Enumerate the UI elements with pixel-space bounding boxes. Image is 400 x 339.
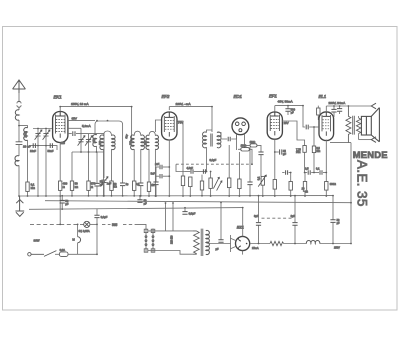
wire heater dashed	[30, 223, 60, 225]
wire osc row	[68, 133, 72, 135]
wire	[80, 134, 82, 152]
svg-text:220 110: 220 110	[171, 235, 174, 244]
capacitor top b	[339, 106, 341, 109]
wire dashed link	[262, 217, 293, 219]
wire	[45, 129, 47, 197]
wire	[111, 190, 113, 195]
wire	[96, 218, 98, 255]
wire	[309, 126, 318, 128]
trimmer capacitor osc 2	[85, 136, 92, 146]
wire bus 2	[45, 201, 351, 203]
svg-text:33W: 33W	[34, 239, 40, 243]
connector mains plug	[28, 253, 31, 256]
capacitor electrolytic det	[247, 182, 252, 185]
svg-text:600: 600	[145, 140, 148, 145]
svg-text:50nF: 50nF	[48, 149, 54, 153]
potentiometer volume	[209, 178, 212, 188]
wire lamp drop	[77, 224, 79, 236]
trimmer capacitor osc 1	[78, 136, 85, 146]
wire	[238, 189, 240, 196]
svg-text:EK1: EK1	[54, 95, 63, 100]
wire	[242, 251, 244, 255]
wire cathode EF1	[274, 139, 276, 179]
wire	[90, 223, 97, 225]
trimmer capacitor padder	[101, 177, 108, 187]
wire screen EF1	[282, 121, 305, 146]
wire	[290, 190, 292, 196]
tube EK1	[53, 112, 68, 143]
wire	[77, 243, 79, 255]
capacitor 50uF bus	[139, 196, 141, 200]
svg-text:µF: µF	[144, 201, 147, 205]
transformer mains primary zigzag	[193, 231, 199, 254]
wire	[103, 152, 105, 178]
svg-text:6V, 0,35A: 6V, 0,35A	[79, 229, 90, 233]
wire selector feed	[136, 224, 146, 229]
wire	[131, 107, 133, 141]
coil IF4a	[203, 132, 207, 148]
capacitor series 2	[50, 143, 52, 148]
wire	[68, 253, 97, 255]
wire	[238, 149, 252, 164]
wire	[27, 191, 29, 196]
resistor	[189, 177, 192, 187]
capacitor coupling EL1	[306, 125, 308, 130]
tube EF2	[162, 112, 177, 140]
capacitor grid EF1	[258, 152, 263, 155]
wire detector grid	[217, 133, 227, 140]
wire	[228, 145, 230, 178]
capacitor detector	[228, 137, 230, 141]
capacitor 35uF cathode EF1	[275, 151, 279, 153]
capacitor	[153, 182, 158, 185]
coil IF1b	[112, 135, 116, 150]
svg-text:µF: µF	[337, 222, 340, 225]
capacitor series 1	[33, 143, 35, 148]
svg-text:200: 200	[23, 132, 27, 137]
wire	[359, 139, 372, 141]
wire	[155, 167, 157, 182]
wire	[304, 173, 306, 196]
antenna	[13, 80, 26, 93]
svg-text:230V, 24mA: 230V, 24mA	[329, 101, 347, 105]
wire rounded routing	[95, 121, 123, 183]
wire	[103, 183, 105, 196]
svg-text:8µF: 8µF	[254, 214, 259, 218]
capacitor coupling b	[156, 175, 159, 177]
coil IF4b	[217, 132, 221, 148]
svg-text:EF2: EF2	[162, 94, 170, 99]
wire	[133, 190, 135, 195]
svg-text:Ω: Ω	[63, 185, 65, 189]
svg-text:10nF: 10nF	[30, 149, 36, 153]
connector plug antenna	[17, 101, 21, 107]
svg-text:40V, 36mA: 40V, 36mA	[278, 100, 294, 104]
capacitor 8uF a	[258, 196, 260, 244]
wire	[189, 187, 191, 196]
capacitor 50uF screen	[94, 183, 99, 186]
svg-text:0,8A: 0,8A	[60, 248, 66, 252]
ground	[15, 196, 24, 216]
svg-text:ED1: ED1	[234, 94, 243, 99]
svg-text:680Ω: 680Ω	[330, 183, 336, 186]
wire cathode EF2	[168, 140, 170, 196]
wire	[96, 134, 98, 152]
wire	[61, 203, 63, 209]
wire	[313, 153, 315, 173]
wire	[71, 152, 73, 181]
wire	[37, 129, 39, 197]
wire	[155, 185, 157, 196]
svg-text:0,2: 0,2	[257, 176, 260, 180]
selector column 1	[144, 229, 148, 253]
svg-text:4,5nF: 4,5nF	[187, 167, 194, 170]
wire	[111, 149, 113, 181]
wire rectifier plate fork	[231, 235, 237, 252]
capacitor 10nF antenna	[16, 142, 23, 145]
wire	[262, 185, 264, 196]
wire volume pot	[210, 172, 212, 179]
wire	[182, 186, 184, 196]
wire	[140, 186, 142, 196]
coil 200	[24, 128, 28, 141]
wire coupling EL1	[303, 106, 305, 127]
coil IF2b	[141, 135, 145, 150]
resistor anode top	[317, 108, 320, 115]
wire	[320, 243, 351, 245]
tube ED1	[232, 118, 249, 135]
capacitor 8uF b	[294, 196, 296, 244]
wire	[122, 186, 124, 196]
wire B+ riser	[350, 143, 352, 244]
wire bracket IF2	[134, 131, 141, 136]
wire 65V line	[68, 120, 95, 122]
capacitor	[282, 172, 284, 174]
wire 180V line	[169, 106, 212, 108]
resistor 1M grid EF1	[250, 144, 257, 147]
wire return line	[330, 142, 351, 144]
resistor	[238, 179, 241, 189]
wire antenna lead	[18, 93, 20, 110]
wire screen dropper	[96, 152, 98, 183]
wire	[325, 190, 327, 196]
capacitor 500pF anode	[287, 106, 289, 109]
resistor IF2 bottom	[133, 181, 136, 190]
wire	[88, 190, 90, 195]
wire cathode down	[59, 190, 61, 224]
resistor IF3 bottom	[147, 182, 150, 191]
wire	[211, 107, 213, 132]
wire 40V line	[275, 105, 303, 107]
svg-text:0,1: 0,1	[316, 168, 320, 171]
svg-text:EL1: EL1	[319, 94, 327, 99]
wire anode EK1	[59, 107, 61, 112]
potentiometer tone	[261, 176, 264, 185]
wire grid row	[33, 128, 53, 130]
resistor 0.1M	[26, 182, 29, 191]
svg-text:150V, 13 mA: 150V, 13 mA	[71, 102, 90, 106]
lamp dial	[84, 221, 90, 227]
wire AVC dashed	[176, 163, 252, 165]
wire	[140, 149, 142, 183]
resistor 400 cathode EK1	[59, 143, 61, 181]
connector arrow bottom	[371, 137, 376, 143]
wire 230V line	[326, 105, 371, 107]
wire ground bus 1	[19, 195, 333, 197]
wire	[237, 134, 245, 150]
svg-text:180V, ~mA: 180V, ~mA	[176, 102, 192, 106]
wire cathode EL1	[325, 140, 327, 182]
wire	[290, 173, 292, 182]
capacitor 0,1uF mains	[96, 209, 98, 215]
wire osc line	[68, 128, 81, 133]
speaker	[361, 108, 379, 142]
resistor dropper zigzag	[270, 241, 284, 245]
wire	[284, 243, 307, 245]
svg-text:250V: 250V	[334, 246, 340, 249]
resistor 20k	[303, 182, 306, 192]
capacitor IF2 bottom	[138, 183, 143, 186]
resistor 570	[87, 181, 90, 190]
wire	[249, 147, 251, 182]
wire screen EF2	[177, 121, 183, 176]
resistor cathode EL1	[325, 182, 328, 191]
resistor screen EF2	[181, 176, 184, 186]
coil IF3b	[155, 135, 158, 149]
wire HT to rectifier	[208, 243, 231, 245]
capacitor 0,1	[314, 172, 319, 174]
wire	[231, 134, 236, 139]
wire B+ bus 3	[29, 208, 243, 210]
wire tap	[165, 203, 167, 231]
wire	[154, 149, 156, 196]
svg-text:0,5: 0,5	[305, 168, 309, 171]
wire anode EF2	[168, 107, 170, 111]
coil output secondary zigzag	[356, 118, 360, 134]
wire	[304, 152, 306, 172]
transformer output core	[353, 116, 355, 135]
capacitor bus mid	[184, 208, 186, 212]
resistor 50k IF	[110, 181, 113, 190]
wire	[133, 149, 135, 181]
wire	[18, 165, 20, 196]
svg-text:65V: 65V	[72, 116, 77, 120]
transformer mains core	[201, 229, 203, 256]
wire primary bottom	[148, 251, 193, 255]
wire	[260, 155, 262, 177]
wire bracket IF1	[104, 131, 112, 136]
svg-text:A.E. 35: A.E. 35	[355, 160, 370, 207]
capacitor 50uF output	[330, 220, 335, 223]
wire	[18, 120, 20, 142]
wire osc bottom row	[72, 151, 104, 153]
wire 150V line	[60, 106, 131, 108]
wire rectifier output riser	[242, 208, 244, 237]
svg-text:8µF: 8µF	[291, 214, 296, 218]
svg-text:1nF: 1nF	[155, 163, 160, 166]
svg-text:5,3mA: 5,3mA	[82, 124, 91, 128]
connector arrow top	[371, 103, 376, 109]
svg-text:24Ω: 24Ω	[296, 151, 301, 154]
svg-text:MΩ: MΩ	[316, 150, 320, 153]
wire	[228, 188, 230, 196]
wire grid EF2	[155, 120, 161, 132]
svg-text:600: 600	[99, 140, 102, 145]
coil IF1a	[100, 135, 104, 150]
capacitor 50uF HT	[220, 203, 222, 240]
wire anode EL1	[325, 106, 327, 112]
svg-text:µF: µF	[65, 202, 68, 206]
svg-text:0,1µF: 0,1µF	[210, 158, 217, 162]
wire	[245, 145, 261, 152]
svg-text:MENDE: MENDE	[353, 149, 388, 160]
coil 600 osc	[93, 135, 97, 147]
coil field zigzag	[346, 106, 351, 143]
wire	[103, 149, 105, 196]
svg-text:kΩ: kΩ	[75, 185, 78, 189]
svg-text:210: 210	[61, 142, 66, 145]
wire	[210, 188, 212, 195]
wire	[18, 145, 20, 156]
resistor diode load	[200, 181, 203, 190]
transformer mains secondary	[206, 230, 210, 254]
selector column 2	[151, 229, 155, 253]
svg-text:27mA: 27mA	[252, 247, 259, 250]
trimmer capacitor tuning 2	[43, 130, 50, 140]
switch mains	[31, 251, 56, 257]
resistor 1M detector	[241, 148, 250, 151]
coil IF2a	[131, 135, 135, 150]
wire anode EF1	[274, 106, 276, 112]
resistor	[228, 178, 231, 188]
resistor screen EF1	[303, 146, 306, 153]
tube EF1	[267, 112, 282, 139]
svg-text:MΩ: MΩ	[31, 186, 35, 190]
wire	[55, 253, 59, 255]
resistor 50k	[70, 181, 73, 190]
wire	[148, 149, 150, 182]
svg-text:0,1µF: 0,1µF	[101, 215, 108, 219]
wire	[332, 222, 334, 243]
capacitor	[203, 169, 205, 173]
capacitor 50uF cathode	[61, 196, 63, 201]
wire	[148, 191, 150, 195]
wire	[88, 152, 90, 181]
wire bracket IF3	[149, 131, 155, 135]
wire	[250, 243, 270, 245]
svg-text:µF: µF	[283, 153, 286, 156]
wire	[207, 130, 213, 133]
capacitor 10nF bypass	[120, 183, 125, 186]
capacitor series osc	[73, 131, 75, 136]
wire	[71, 190, 73, 195]
fuse 0,8A	[59, 252, 68, 256]
resistor 0,8M grid EL1	[313, 127, 315, 146]
tube EZ1	[236, 236, 250, 250]
svg-text:EF1: EF1	[269, 94, 277, 99]
wire	[27, 140, 29, 182]
svg-text:600: 600	[92, 138, 96, 143]
junction dots	[18, 195, 20, 197]
svg-text:Ω: Ω	[91, 185, 93, 189]
resistor cathode EF1	[273, 180, 276, 190]
wire filter cap drop	[332, 196, 334, 220]
coil lamp loop	[78, 237, 81, 243]
core IF4	[211, 134, 212, 147]
capacitor top a	[333, 106, 335, 109]
svg-text:5nF: 5nF	[151, 172, 156, 175]
wire	[96, 186, 98, 196]
tube EL1	[319, 112, 334, 141]
capacitor audio coupling	[185, 171, 190, 173]
capacitor coupling a	[156, 166, 159, 168]
wire coupling row	[29, 146, 57, 150]
capacitor 0,5	[305, 172, 308, 174]
wire	[206, 147, 208, 171]
svg-text:20V: 20V	[284, 121, 289, 125]
coil choke	[306, 241, 319, 244]
wire	[76, 134, 104, 152]
wire primary top	[148, 230, 193, 232]
wire	[274, 189, 276, 196]
wire to input coil	[19, 126, 28, 128]
wire tap 2	[172, 203, 174, 231]
coil IF3a	[146, 135, 149, 149]
wire	[238, 152, 240, 179]
svg-text:565: 565	[112, 223, 118, 227]
svg-text:µF: µF	[216, 248, 219, 251]
wire	[88, 134, 90, 152]
trimmer capacitor tuning 1	[35, 130, 42, 140]
svg-text:kΩ: kΩ	[114, 186, 117, 189]
wire dashed 565	[102, 223, 136, 225]
svg-text:pF: pF	[291, 111, 294, 114]
coil L-ant-1	[15, 110, 19, 120]
resistor	[289, 182, 292, 191]
svg-text:1MΩ: 1MΩ	[250, 140, 256, 144]
svg-text:2nF: 2nF	[107, 181, 112, 185]
wire	[176, 164, 185, 171]
svg-text:0,5µF: 0,5µF	[189, 211, 196, 215]
coil L-ant-2	[15, 156, 19, 166]
